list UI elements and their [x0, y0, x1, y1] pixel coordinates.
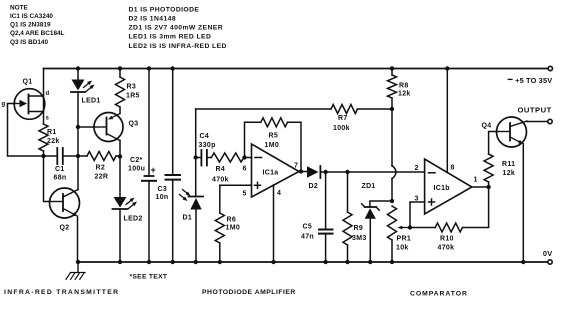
- node: [118, 260, 122, 264]
- op-amp IC1a: [243, 144, 300, 198]
- svg-text:C1: C1: [55, 166, 65, 173]
- svg-text:D1: D1: [183, 215, 193, 222]
- wire: [77, 216, 79, 262]
- node: [345, 260, 349, 264]
- wire: [522, 144, 524, 262]
- node: [390, 199, 394, 203]
- led LED2: [113, 197, 143, 223]
- wire: [195, 210, 197, 263]
- wire: [77, 69, 79, 80]
- svg-text:Q4: Q4: [482, 123, 492, 130]
- wire: [220, 184, 252, 186]
- wire: [391, 178, 393, 201]
- node: [194, 155, 198, 159]
- wire: [148, 69, 150, 177]
- svg-text:R7: R7: [338, 115, 348, 122]
- svg-text:470k: 470k: [438, 245, 455, 252]
- svg-text:10k: 10k: [396, 245, 409, 252]
- terminal +5 TO 35V: [508, 66, 552, 85]
- svg-text:R9: R9: [354, 225, 364, 232]
- node: [76, 154, 80, 158]
- node: [76, 260, 80, 264]
- wire: [207, 157, 211, 159]
- node: [271, 260, 275, 264]
- svg-text:8: 8: [451, 165, 455, 172]
- svg-text:Q3: Q3: [129, 121, 139, 128]
- svg-text:R4: R4: [216, 166, 226, 173]
- resistor R10: [410, 187, 489, 252]
- node: [171, 260, 175, 264]
- svg-text:IC1a: IC1a: [263, 170, 279, 177]
- svg-text:Q1: Q1: [23, 79, 33, 86]
- zener ZD1: [362, 183, 393, 262]
- wire: [472, 186, 489, 188]
- transistor Q3: [94, 113, 139, 142]
- ground: [66, 262, 85, 279]
- svg-text:1M0: 1M0: [265, 142, 280, 149]
- svg-text:7: 7: [294, 163, 298, 170]
- note text right column: [129, 6, 227, 49]
- svg-text:g: g: [2, 102, 6, 108]
- caption see text: [130, 274, 168, 281]
- svg-text:6: 6: [243, 166, 247, 173]
- node: [390, 66, 394, 70]
- node: [76, 125, 80, 129]
- node: [299, 169, 303, 173]
- wire: [320, 171, 424, 173]
- node: [242, 155, 246, 159]
- wire: [273, 185, 275, 262]
- resistor R3: [116, 69, 140, 114]
- diode D2: [307, 166, 320, 190]
- svg-text:22k: 22k: [47, 138, 60, 145]
- op-amp IC1b: [415, 159, 478, 214]
- svg-text:5: 5: [243, 191, 247, 198]
- resistor R4: [211, 153, 244, 184]
- caption infra-red transmitter: [4, 289, 119, 296]
- capacitor C3: [156, 175, 181, 201]
- svg-text:COMPARATOR: COMPARATOR: [410, 290, 468, 297]
- wire: [195, 109, 197, 197]
- capacitor C4: [199, 133, 216, 166]
- node: [368, 260, 372, 264]
- svg-text:R2: R2: [96, 165, 106, 172]
- svg-text:10n: 10n: [156, 194, 169, 201]
- top supply rail: [44, 68, 548, 70]
- svg-text:LED1: LED1: [82, 98, 101, 105]
- terminal 0V: [543, 249, 553, 264]
- wire: [148, 181, 150, 262]
- node: [521, 260, 525, 264]
- resistor R2: [78, 152, 120, 181]
- svg-text:1: 1: [474, 177, 478, 184]
- wire: [446, 69, 448, 173]
- capacitor C2: [128, 157, 156, 181]
- node: [76, 66, 80, 70]
- led LED1: [71, 80, 101, 105]
- svg-text:R10: R10: [440, 236, 454, 243]
- svg-text:3: 3: [415, 196, 419, 203]
- note text left column: [10, 4, 65, 45]
- wire: [44, 156, 50, 202]
- svg-text:s: s: [46, 116, 50, 122]
- svg-text:IC1b: IC1b: [434, 185, 450, 192]
- svg-text:C4: C4: [200, 133, 210, 140]
- wire hop: [392, 166, 396, 179]
- svg-text:ZD1: ZD1: [362, 183, 376, 190]
- resistor R5: [245, 118, 302, 172]
- svg-text:IC1 IS CA3240: IC1 IS CA3240: [10, 13, 53, 20]
- bottom 0V rail: [78, 261, 548, 263]
- wire: [410, 202, 425, 228]
- wire: [77, 127, 79, 156]
- wire: [77, 156, 79, 190]
- photodiode D1: [180, 190, 204, 222]
- svg-text:68n: 68n: [54, 175, 67, 182]
- resistor R9: [343, 172, 367, 262]
- svg-text:Q2,4 ARE BC184L: Q2,4 ARE BC184L: [10, 30, 65, 37]
- svg-text:D2: D2: [309, 183, 319, 190]
- svg-text:PHOTODIODE AMPLIFIER: PHOTODIODE AMPLIFIER: [202, 289, 296, 296]
- wire: [299, 171, 307, 173]
- svg-text:LED1 IS 3mm RED LED: LED1 IS 3mm RED LED: [129, 34, 212, 41]
- node: [118, 66, 122, 70]
- wire: [78, 126, 94, 128]
- wire: [77, 92, 79, 127]
- svg-text:1R5: 1R5: [126, 93, 140, 100]
- node: [194, 260, 198, 264]
- terminal OUTPUT: [518, 106, 553, 124]
- caption photodiode amplifier: [202, 289, 296, 296]
- node: [41, 154, 45, 158]
- wire: [527, 121, 548, 123]
- node: [118, 154, 122, 158]
- resistor R11: [484, 132, 515, 188]
- svg-text:C3: C3: [158, 186, 168, 193]
- svg-text:LED2 IS IS INFRA-RED LED: LED2 IS IS INFRA-RED LED: [129, 43, 227, 50]
- svg-text:22R: 22R: [95, 174, 109, 181]
- wire: [119, 209, 121, 262]
- svg-text:D2 IS 1N4148: D2 IS 1N4148: [129, 16, 177, 23]
- svg-text:R3: R3: [127, 84, 137, 91]
- svg-text:1M0: 1M0: [226, 224, 241, 231]
- svg-text:100k: 100k: [333, 125, 350, 132]
- wire: [244, 157, 252, 159]
- svg-text:+: +: [151, 165, 157, 175]
- svg-text:NOTE: NOTE: [10, 4, 28, 11]
- node: [147, 66, 151, 70]
- svg-text:0V: 0V: [543, 249, 553, 258]
- node: [390, 260, 394, 264]
- preset PR1: [388, 206, 412, 262]
- capacitor C1: [54, 148, 67, 182]
- node: [171, 66, 175, 70]
- svg-text:4: 4: [277, 190, 281, 197]
- wire: [44, 155, 58, 157]
- node: [345, 170, 349, 174]
- wire: [172, 69, 174, 176]
- svg-text:OUTPUT: OUTPUT: [518, 106, 552, 115]
- wire: [172, 180, 174, 262]
- svg-text:D1 IS PHOTODIODE: D1 IS PHOTODIODE: [129, 6, 200, 13]
- transistor Q4: [482, 117, 528, 147]
- resistor R1: [39, 124, 60, 156]
- transistor Q1: [2, 79, 50, 122]
- svg-text:470k: 470k: [212, 177, 229, 184]
- svg-text:2: 2: [415, 165, 419, 172]
- node: [486, 185, 490, 189]
- svg-text:R8: R8: [399, 82, 409, 89]
- wire: [119, 157, 121, 197]
- svg-text:12k: 12k: [503, 170, 516, 177]
- svg-text:330p: 330p: [199, 142, 216, 149]
- resistor R7: [196, 105, 392, 133]
- svg-text:PR1: PR1: [397, 236, 412, 243]
- svg-text:3M3: 3M3: [352, 235, 367, 242]
- wire: [391, 109, 393, 166]
- svg-text:Q1 IS 2N3819: Q1 IS 2N3819: [10, 22, 51, 29]
- node: [147, 260, 151, 264]
- node: [218, 260, 222, 264]
- svg-text:C5: C5: [303, 224, 313, 231]
- resistor R8: [388, 69, 411, 110]
- svg-text:ZD1 IS 2V7 400mW ZENER: ZD1 IS 2V7 400mW ZENER: [129, 25, 224, 32]
- svg-text:d: d: [46, 91, 50, 97]
- svg-text:R11: R11: [502, 161, 515, 168]
- capacitor C5: [301, 172, 333, 262]
- node: [445, 66, 449, 70]
- svg-text:R1: R1: [47, 129, 57, 136]
- node: [323, 260, 327, 264]
- svg-text:Q2: Q2: [60, 225, 70, 232]
- wire: [63, 155, 78, 157]
- wire: [196, 157, 202, 159]
- caption comparator: [410, 290, 468, 297]
- svg-text:LED2: LED2: [124, 216, 143, 223]
- svg-text:+5 TO 35V: +5 TO 35V: [515, 76, 552, 85]
- svg-text:R5: R5: [269, 133, 279, 140]
- svg-text:Q3 IS BD140: Q3 IS BD140: [10, 39, 48, 46]
- svg-text:INFRA-RED TRANSMITTER: INFRA-RED TRANSMITTER: [4, 289, 119, 296]
- wire: [219, 185, 221, 213]
- node: [390, 107, 394, 111]
- svg-text:100u: 100u: [128, 166, 145, 173]
- svg-text:R6: R6: [227, 217, 237, 224]
- wire: [8, 104, 44, 157]
- node: [408, 225, 412, 229]
- wire: [119, 141, 121, 157]
- transistor Q2: [50, 188, 80, 232]
- node: [323, 170, 327, 174]
- resistor R6: [215, 213, 240, 262]
- svg-text:*SEE TEXT: *SEE TEXT: [130, 274, 168, 281]
- svg-text:12k: 12k: [398, 90, 411, 97]
- wire: [43, 69, 45, 125]
- svg-text:C2*: C2*: [130, 157, 143, 164]
- svg-text:47n: 47n: [301, 234, 314, 241]
